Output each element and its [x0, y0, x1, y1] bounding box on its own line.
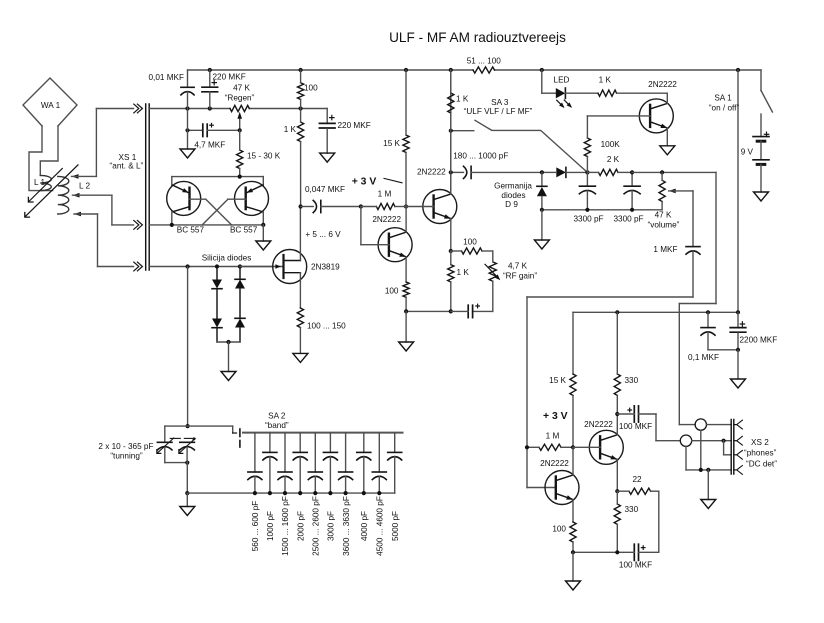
ground left	[180, 109, 195, 159]
capacitor band 4500 ... 4600 pF	[372, 433, 386, 556]
wire Q4 base	[406, 206, 434, 208]
svg-text:4,7 MKF: 4,7 MKF	[194, 140, 225, 149]
svg-text:1500 ... 1600 pF: 1500 ... 1600 pF	[281, 496, 290, 556]
wire Q3 base	[361, 207, 389, 245]
svg-text:1 M: 1 M	[546, 431, 560, 440]
svg-text:2 x 10 - 365 pF: 2 x 10 - 365 pF	[98, 442, 153, 451]
ground tuning	[180, 493, 195, 515]
svg-text:“on / off”: “on / off”	[709, 104, 740, 113]
svg-text:D 9: D 9	[505, 200, 518, 209]
wire Q6 emitter	[572, 500, 574, 522]
wire out to jack	[656, 414, 680, 441]
transistor Q4 2N2222	[417, 168, 457, 224]
capacitor tuning gang	[98, 426, 195, 465]
connector XS1	[110, 104, 150, 271]
resistor 22	[617, 475, 659, 494]
svg-text:1 K: 1 K	[599, 75, 612, 84]
transistor Q5 2N2222	[639, 80, 677, 133]
svg-text:560 ... 600 pF: 560 ... 600 pF	[251, 501, 260, 552]
label +3V amp	[543, 411, 568, 422]
jack circle top	[695, 419, 731, 470]
wire top rail	[188, 68, 762, 72]
capacitor band 5000 pF	[388, 433, 402, 541]
svg-text:1 K: 1 K	[457, 268, 470, 277]
ground amp	[566, 552, 581, 590]
svg-text:47 K: 47 K	[233, 84, 250, 93]
transistor Q7 2N2222	[584, 420, 623, 464]
svg-text:“DC det”: “DC det”	[746, 459, 777, 468]
svg-text:XS 2: XS 2	[751, 438, 769, 447]
svg-text:Germanija: Germanija	[494, 181, 532, 190]
svg-text:3000 pF: 3000 pF	[327, 511, 336, 541]
diode D9 shunt	[537, 172, 547, 209]
ground Q5	[660, 146, 675, 155]
capacitor 180...1000pF	[449, 151, 542, 178]
wire cross coupling	[190, 199, 246, 225]
svg-text:1 MKF: 1 MKF	[653, 245, 677, 254]
ground 220MKF	[320, 153, 335, 162]
capacitor band 1500 ... 1600 pF	[278, 433, 292, 556]
svg-text:15 - 30 K: 15 - 30 K	[247, 152, 281, 161]
wire Q7 emitter	[615, 459, 619, 493]
node detector	[585, 170, 589, 174]
svg-text:15 K: 15 K	[383, 139, 400, 148]
wire L2 middle tap to XS1	[73, 193, 134, 225]
resistor 15K	[383, 70, 409, 207]
resistor 51...100	[467, 57, 502, 74]
svg-text:“volume”: “volume”	[648, 220, 680, 229]
wire Q4 collector lower	[450, 131, 452, 193]
svg-text:4500 ... 4600 pF: 4500 ... 4600 pF	[376, 496, 385, 556]
svg-text:+ 3 V: + 3 V	[543, 411, 568, 422]
label +3V top	[352, 177, 402, 188]
svg-text:100: 100	[552, 524, 566, 533]
svg-text:4,7 K: 4,7 K	[508, 261, 528, 270]
svg-text:2N2222: 2N2222	[372, 215, 401, 224]
svg-text:diodes: diodes	[501, 191, 525, 200]
wire detector rail	[540, 208, 662, 212]
label +5...6V	[305, 230, 341, 239]
ground emitter rail	[399, 311, 414, 351]
wire flipflop top	[172, 175, 263, 186]
antenna WA1	[23, 78, 77, 191]
svg-text:100: 100	[385, 287, 399, 296]
capacitor 3300pF b	[613, 170, 643, 223]
label Germanija diodes	[494, 181, 532, 209]
capacitor band 2500 ... 2600 pF	[308, 433, 322, 556]
capacitor band 3600 ... 3630 pF	[339, 433, 353, 556]
ground detector	[534, 210, 549, 249]
wire band bus	[243, 432, 403, 434]
svg-text:SA 1: SA 1	[714, 94, 732, 103]
resistor 100 Q4	[451, 238, 493, 255]
wire tuning drop	[186, 267, 190, 429]
svg-text:L 2: L 2	[79, 182, 91, 191]
diode D9 series	[540, 167, 588, 177]
capacitor 220 MKF	[202, 70, 246, 109]
capacitor 100 MKF out	[617, 406, 656, 431]
svg-text:“tunning”: “tunning”	[110, 452, 143, 461]
svg-text:220 MKF: 220 MKF	[338, 121, 371, 130]
svg-text:+ 5 ... 6 V: + 5 ... 6 V	[305, 230, 341, 239]
svg-text:“RF gain”: “RF gain”	[503, 272, 537, 281]
svg-text:1 K: 1 K	[456, 95, 469, 104]
wire Q5 collector	[666, 93, 668, 103]
svg-text:2N2222: 2N2222	[540, 459, 569, 468]
svg-text:100K: 100K	[601, 140, 621, 149]
transistor Q3 2N2222	[372, 215, 412, 262]
wire Q4 collector	[450, 70, 452, 194]
resistor 1K SA3	[448, 70, 469, 131]
svg-text:BC 557: BC 557	[230, 226, 258, 235]
svg-text:“ant. & L”: “ant. & L”	[110, 161, 144, 170]
wire amp in	[692, 191, 694, 247]
svg-text:1000 pF: 1000 pF	[266, 511, 275, 541]
wire rail2	[150, 106, 327, 110]
resistor 1K LED	[565, 75, 667, 96]
diode LED	[554, 75, 572, 108]
capacitor 0,01 MKF	[149, 70, 195, 109]
wire right rail	[737, 70, 739, 312]
svg-text:L 1: L 1	[34, 178, 46, 187]
resistor 100 Q3	[403, 282, 409, 297]
svg-text:22: 22	[632, 475, 642, 484]
jack circle mid	[680, 435, 731, 470]
wire L2 bottom tap to XS1	[74, 212, 134, 267]
svg-text:ULF - MF AM radiouztvereejs: ULF - MF AM radiouztvereejs	[389, 30, 566, 45]
svg-text:100: 100	[304, 84, 318, 93]
wire jack bottom	[686, 468, 731, 472]
battery 9V	[741, 114, 769, 192]
svg-text:100 MKF: 100 MKF	[619, 422, 652, 431]
svg-text:220 MKF: 220 MKF	[213, 73, 246, 82]
switch SA3	[449, 98, 588, 172]
svg-text:BC 557: BC 557	[177, 226, 205, 235]
wire JFET drain	[299, 207, 301, 261]
transistor 2N3819 JFET	[240, 250, 340, 284]
ground diodes	[221, 372, 236, 381]
svg-text:Silicija diodes: Silicija diodes	[202, 253, 252, 262]
svg-text:15 K: 15 K	[549, 376, 566, 385]
wire emitter rail	[404, 309, 493, 313]
diode chain up	[235, 267, 245, 343]
resistor 100 top	[298, 70, 319, 109]
capacitor emitter bypass	[451, 304, 480, 317]
potentiometer 47K volume	[648, 172, 693, 229]
svg-text:SA 2: SA 2	[268, 411, 286, 420]
capacitor band 4000 pF	[357, 433, 371, 541]
svg-text:1 M: 1 M	[378, 190, 392, 199]
wire Q3 emitter	[405, 257, 407, 282]
svg-text:+ 3 V: + 3 V	[352, 177, 377, 188]
ground XS2	[701, 470, 716, 509]
capacitor band 1000 pF	[263, 433, 277, 541]
connector XS2	[731, 420, 777, 475]
wire Q4 emitter	[449, 219, 453, 253]
svg-text:2200 MKF: 2200 MKF	[740, 335, 778, 344]
inductor L1	[34, 175, 51, 190]
inductor L2	[58, 176, 91, 214]
svg-text:“band”: “band”	[265, 421, 289, 430]
resistor 1K left	[284, 109, 304, 207]
resistor 100...150	[297, 308, 346, 353]
svg-text:0,01 MKF: 0,01 MKF	[149, 73, 185, 82]
wire 15K2 drop	[572, 312, 574, 374]
svg-text:2N2222: 2N2222	[417, 168, 446, 177]
svg-text:3300 pF: 3300 pF	[573, 215, 603, 224]
title	[389, 30, 566, 45]
capacitor band 2000 pF	[293, 433, 307, 541]
svg-text:3600 ... 3630 pF: 3600 ... 3630 pF	[342, 496, 351, 556]
adjustable core arrows	[25, 165, 78, 217]
svg-text:100 ... 150: 100 ... 150	[307, 322, 346, 331]
svg-text:LED: LED	[554, 75, 570, 84]
resistor 330 b	[614, 491, 638, 552]
svg-text:2 K: 2 K	[607, 155, 620, 164]
svg-text:51 ... 100: 51 ... 100	[467, 57, 502, 66]
capacitor 2200 MKF	[730, 312, 777, 352]
label 100 Q3	[385, 287, 399, 296]
svg-text:5000 pF: 5000 pF	[391, 511, 400, 541]
node 0,047 junction	[299, 204, 303, 208]
svg-text:3300 pF: 3300 pF	[613, 215, 643, 224]
resistor 15K amp	[549, 374, 576, 447]
transistor Q6 2N2222	[540, 459, 579, 504]
svg-text:0,1 MKF: 0,1 MKF	[688, 353, 719, 362]
wire amp in 2	[527, 297, 693, 488]
wire tuning down	[185, 463, 189, 496]
resistor 15-30K	[237, 130, 281, 177]
potentiometer 47K Regen	[225, 84, 255, 131]
svg-text:100: 100	[463, 238, 477, 247]
capacitor 3300pF a	[573, 172, 603, 223]
wire band bottom rail	[187, 492, 394, 494]
capacitor band 560 ... 600 pF	[248, 433, 262, 552]
diode chain down	[212, 267, 222, 343]
capacitor 1 MKF	[653, 245, 700, 297]
transistor Q2 BC557	[230, 181, 269, 234]
capacitor 4,7 MKF	[185, 123, 241, 149]
wire Q5 base	[587, 115, 650, 117]
capacitor 100 MKF fb	[617, 544, 659, 569]
svg-text:“Regen”: “Regen”	[225, 94, 255, 103]
wire det out	[679, 172, 716, 424]
ground battery	[754, 192, 769, 201]
svg-text:“phones”: “phones”	[744, 449, 777, 458]
svg-text:WA 1: WA 1	[41, 101, 61, 110]
switch SA2	[188, 411, 289, 447]
svg-text:4000 pF: 4000 pF	[360, 511, 369, 541]
resistor 100 amp	[552, 522, 576, 552]
ground flipflop	[256, 225, 271, 250]
svg-text:2N2222: 2N2222	[648, 80, 677, 89]
capacitor 0,1 MKF	[688, 312, 738, 362]
svg-text:100 MKF: 100 MKF	[619, 561, 652, 570]
svg-text:47 K: 47 K	[655, 211, 672, 220]
wire silicija rail	[150, 253, 272, 268]
wire diode join	[217, 340, 240, 372]
wire Q6 collector	[572, 447, 574, 475]
wire Q7 collector	[615, 412, 619, 435]
capacitor band 3000 pF	[323, 433, 337, 541]
svg-text:SA 3: SA 3	[491, 98, 509, 107]
potentiometer 4,7K RF gain	[485, 251, 537, 311]
resistor 2K	[587, 155, 632, 176]
resistor 1M	[359, 190, 408, 210]
wire Q5 emitter	[666, 128, 668, 146]
svg-text:2500 ... 2600 pF: 2500 ... 2600 pF	[312, 496, 321, 556]
wire supply rail	[573, 310, 740, 314]
svg-text:0,047 MKF: 0,047 MKF	[305, 185, 345, 194]
svg-text:2N3819: 2N3819	[311, 263, 340, 272]
wire flipflop bottom	[150, 212, 266, 227]
capacitor 0,047 MKF	[301, 185, 361, 213]
svg-text:“ULF VLF / LF MF”: “ULF VLF / LF MF”	[464, 107, 533, 116]
ground JFET	[293, 353, 308, 362]
svg-text:9 V: 9 V	[741, 148, 754, 157]
resistor 330 a	[614, 312, 638, 414]
svg-text:2N2222: 2N2222	[584, 420, 613, 429]
svg-text:1 K: 1 K	[284, 125, 297, 134]
resistor 100K	[584, 116, 620, 172]
wire volume node	[632, 170, 716, 174]
wire Q3 collector	[405, 207, 407, 233]
switch SA1	[709, 70, 773, 113]
wire JFET source	[299, 273, 301, 308]
resistor 1M amp	[525, 431, 575, 450]
svg-text:330: 330	[625, 376, 639, 385]
wire Q3 emitter2	[405, 297, 407, 311]
wire amp bottom rail	[571, 550, 620, 554]
svg-text:2000 pF: 2000 pF	[296, 511, 305, 541]
transistor Q1 BC557	[167, 181, 205, 234]
ground filter	[731, 350, 746, 388]
wire LED drop	[542, 70, 556, 93]
wire 22 feedback	[658, 491, 660, 552]
wire Q7 base	[573, 446, 600, 448]
wire L2 top tap to XS1	[72, 109, 134, 179]
svg-text:330: 330	[625, 505, 639, 514]
resistor 1K Q4	[448, 251, 470, 311]
svg-text:180 ... 1000 pF: 180 ... 1000 pF	[453, 151, 508, 160]
capacitor 220 MKF decouple	[319, 109, 370, 154]
